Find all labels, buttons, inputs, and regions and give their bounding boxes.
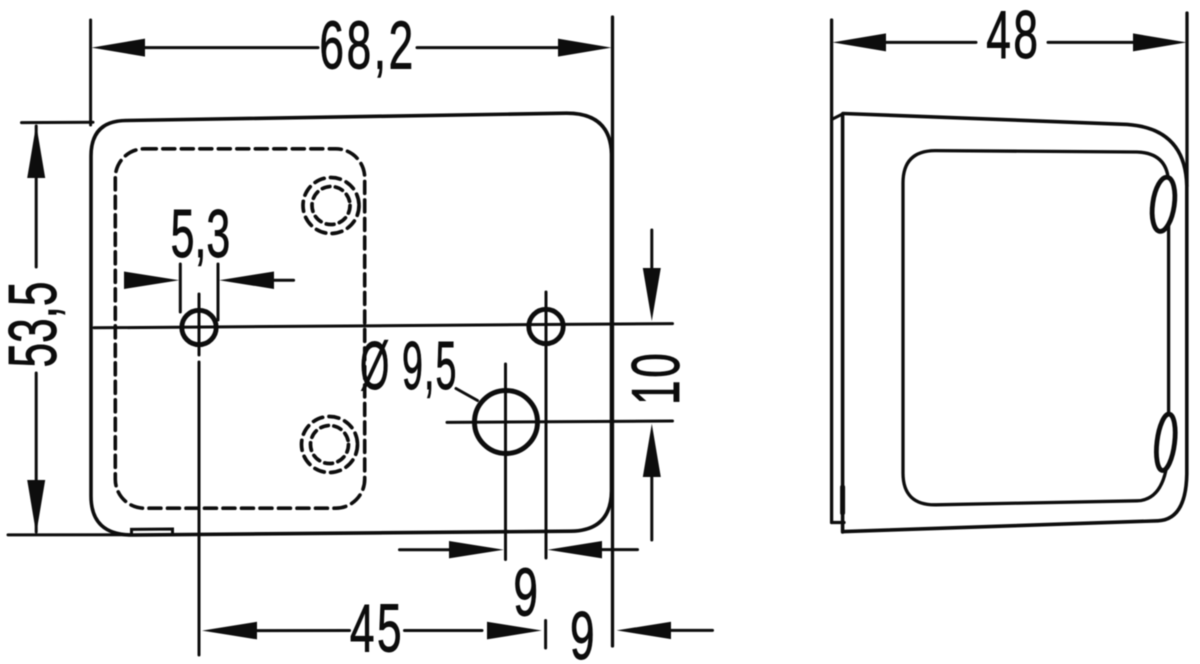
dimension 10 line lower: [650, 477, 653, 540]
svg-text:5,3: 5,3: [171, 197, 231, 272]
label 9 first: [513, 555, 538, 631]
dimension 10 line upper: [650, 230, 653, 276]
side view flange bottom edge: [832, 521, 844, 524]
dimension 53,5 top arrowhead: [27, 125, 45, 179]
dimension 5,3 extension lines: [180, 264, 218, 320]
dimension 5,3 right arrowhead: [219, 272, 274, 290]
hole left 5.3: [182, 310, 216, 344]
dimension 45 left arrowhead: [202, 622, 257, 640]
screw boss top: inner dashed circle: [312, 187, 350, 225]
svg-text:68,2: 68,2: [319, 8, 415, 84]
side view right extension line: [1185, 13, 1188, 186]
side view flange left edge / 48 extension: [830, 20, 833, 523]
label 53,5: [0, 282, 71, 368]
mounting tab detail bottom-left: [132, 529, 173, 535]
dimension 53,5 line: [35, 126, 38, 532]
dimension 9 first line: [400, 548, 638, 551]
dashed lens rectangle: [115, 149, 364, 508]
dimension 68,2 right arrowhead: [558, 39, 612, 57]
svg-text:9: 9: [570, 599, 595, 664]
dimension 48 right arrowhead: [1133, 33, 1187, 51]
dimension 45 line: [257, 629, 482, 632]
label 10: [619, 351, 695, 405]
dimension 68,2 line: [143, 46, 560, 49]
dimension 9 second arrowhead: [617, 622, 671, 639]
label 5,3: [171, 197, 231, 272]
vertical centerline Ø9.5 hole: [504, 364, 507, 560]
vertical centerline right hole: [544, 292, 547, 648]
label 48: [986, 0, 1040, 73]
screw recess oval top: [1149, 176, 1178, 233]
front view outline: [91, 113, 612, 535]
vertical centerline left hole: [198, 294, 201, 655]
dimension 48 line: [884, 41, 1138, 44]
dimension 5,3 left arrowhead: [124, 272, 179, 290]
dimension 53,5 bottom arrowhead: [27, 480, 45, 534]
horizontal centerline: [94, 324, 673, 328]
svg-text:45: 45: [350, 591, 404, 664]
side view flange right edge: [841, 114, 845, 532]
svg-text:10: 10: [619, 351, 695, 405]
svg-text:48: 48: [986, 0, 1040, 73]
screw boss bottom: outer dashed circle: [302, 417, 358, 473]
side view body outline: [843, 114, 1187, 532]
left extension line (68.2): [89, 20, 92, 125]
dimension 9 second tail: [671, 629, 713, 632]
hole right: [529, 309, 563, 343]
side view flange foot thick mark: [840, 487, 845, 513]
dimension 9 first right-pointing arrowhead: [449, 541, 504, 558]
extension line top-left: [22, 121, 94, 124]
dimension 10 upper arrowhead: [643, 268, 661, 321]
side view lens rounded rectangle: [903, 151, 1169, 505]
right extension line (68.2 / 9): [611, 17, 614, 646]
hole Ø9.5: [475, 391, 538, 454]
dimension 5,3 right tail: [274, 279, 294, 282]
side view flange top edge: [832, 114, 843, 120]
dimension 45 right arrowhead: [487, 622, 542, 640]
screw boss bottom: inner dashed circle: [311, 426, 349, 464]
svg-text:53,5: 53,5: [0, 282, 71, 368]
dimension 68,2 left arrowhead: [92, 39, 146, 57]
screw boss top: outer dashed circle: [303, 178, 359, 234]
label 68,2: [319, 8, 415, 84]
svg-text:9: 9: [513, 555, 538, 631]
horizontal line through Ø9.5 hole: [447, 421, 673, 422]
dimension 9 first left-pointing arrowhead: [548, 541, 602, 558]
extension line bottom-left: [8, 533, 131, 536]
leader line Ø9,5: [456, 389, 478, 401]
label 45: [350, 591, 404, 664]
dimension 48 left arrowhead: [832, 33, 886, 51]
screw recess oval bottom: [1154, 413, 1178, 472]
label Ø 9,5: [360, 327, 457, 404]
dimension 10 lower arrowhead: [643, 424, 661, 477]
svg-text:Ø 9,5: Ø 9,5: [360, 327, 457, 404]
label 9 second: [570, 599, 595, 664]
